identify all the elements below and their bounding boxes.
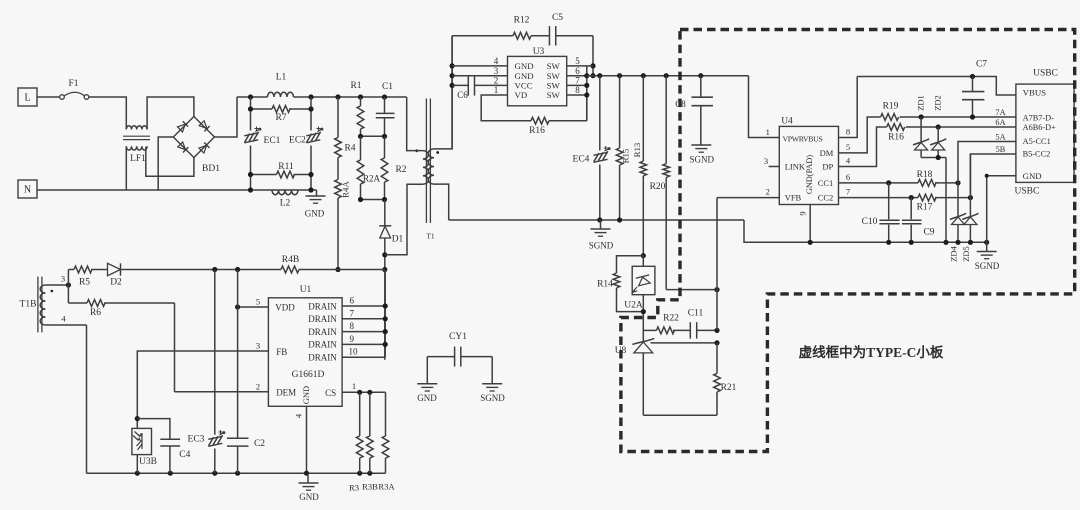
junction (135, 416, 140, 421)
svg-text:R2: R2 (395, 165, 406, 175)
capacitor CY1 (427, 356, 454, 358)
junction (714, 340, 719, 345)
svg-text:F1: F1 (68, 79, 78, 89)
junction (212, 267, 217, 272)
svg-text:3: 3 (494, 66, 499, 76)
wire rail jog to typec (744, 220, 987, 242)
svg-text:SW: SW (547, 81, 561, 91)
transformer T1B core (37, 277, 39, 333)
junction (714, 287, 719, 292)
svg-text:5A: 5A (995, 132, 1005, 141)
resistor R13 (642, 76, 644, 161)
svg-text:R4: R4 (344, 144, 355, 154)
svg-text:R12: R12 (514, 16, 530, 26)
capacitor C1 (384, 97, 386, 113)
junction (358, 134, 363, 139)
SW bus vertical (586, 66, 588, 121)
svg-text:GND: GND (515, 71, 534, 81)
svg-text:R4B: R4B (282, 255, 299, 265)
resistor R17 (918, 194, 936, 201)
wire U8 cathode right (651, 342, 718, 344)
inductor L1 (268, 92, 294, 97)
resistor R11 (277, 171, 295, 178)
wire CY1 left leg (426, 357, 428, 384)
svg-text:C9: C9 (923, 228, 934, 238)
ground SGND (CY1) (482, 383, 502, 385)
junction (641, 309, 646, 314)
resistor R22 (656, 327, 674, 334)
svg-text:U4: U4 (781, 117, 793, 127)
junction (248, 187, 253, 192)
svg-text:GND: GND (515, 61, 534, 71)
IC U4 box (779, 126, 838, 204)
junction (714, 328, 719, 333)
svg-text:R5: R5 (79, 278, 90, 288)
wire R20 to feedback node (666, 289, 717, 291)
wire secondary bottom (434, 184, 449, 220)
capacitor EC3 branch (214, 270, 216, 435)
U3 pin 1 wire via R16 (481, 95, 531, 121)
common-mode choke LF1 top winding (126, 126, 147, 130)
svg-text:R4A: R4A (341, 181, 351, 198)
wire rail down to U4 pin1 (749, 76, 780, 138)
wire secondary top (434, 36, 452, 149)
wire EC2 branch (310, 97, 312, 131)
junction (936, 155, 941, 160)
IC U1 box (268, 298, 342, 407)
optocoupler U2A box (632, 266, 655, 294)
svg-text:R3B: R3B (362, 482, 378, 492)
svg-text:C4: C4 (179, 450, 190, 460)
connector USBC box (1016, 84, 1074, 182)
svg-text:2: 2 (494, 76, 499, 86)
svg-text:9: 9 (798, 211, 808, 215)
wire R17 to 5B node (935, 197, 970, 199)
transformer T1 core (425, 99, 427, 223)
U3 pin 4 wire (452, 65, 507, 67)
U3 pin 3 wire (452, 75, 507, 77)
svg-text:SGND: SGND (690, 155, 715, 165)
wire primary bottom (385, 184, 423, 255)
BD1 diode bottom-left (178, 142, 189, 153)
junction (357, 390, 362, 395)
svg-text:USBC: USBC (1033, 69, 1058, 79)
U3 pin 2 wire (452, 84, 468, 86)
choke LF1 core (123, 135, 150, 137)
svg-text:D2: D2 (110, 278, 122, 288)
wire R4B to drain bus (299, 269, 385, 271)
svg-text:DM: DM (820, 148, 834, 158)
junction (248, 172, 253, 177)
svg-text:DRAIN: DRAIN (308, 353, 337, 363)
junction (909, 195, 914, 200)
wire VFB vertical (716, 198, 718, 331)
U1 CS wire (342, 391, 385, 393)
svg-text:L: L (24, 93, 30, 104)
svg-text:CC1: CC1 (818, 178, 834, 188)
wire fuse to choke (89, 97, 127, 129)
wire secondary ground rail (449, 219, 744, 221)
svg-text:B5-CC2: B5-CC2 (1023, 150, 1051, 159)
capacitor C11 (689, 322, 691, 338)
resistor R12 (513, 32, 531, 39)
svg-text:EC3: EC3 (188, 435, 205, 445)
U4 pin 8 wire to VBUS rail (839, 77, 858, 138)
wire R4 chain (337, 97, 339, 138)
junction (382, 252, 387, 257)
diode D2 (108, 263, 121, 275)
ground GND (U1) (307, 473, 309, 483)
wire N rail / negative rail (37, 189, 317, 191)
U3 SW pin wires (567, 65, 593, 67)
bridge rectifier BD1 diamond (173, 117, 214, 158)
svg-text:1: 1 (766, 127, 770, 137)
svg-text:R22: R22 (663, 314, 679, 324)
svg-text:SGND: SGND (589, 241, 614, 251)
U1 pin 4 wire (306, 406, 308, 473)
capacitor EC4 (599, 76, 601, 151)
junction (248, 106, 253, 111)
resistor R2A (360, 136, 362, 160)
capacitor C8 (692, 96, 713, 98)
svg-text:3: 3 (764, 156, 768, 166)
svg-text:A5-CC1: A5-CC1 (1023, 137, 1051, 146)
junction (597, 73, 602, 78)
svg-text:DRAIN: DRAIN (308, 314, 337, 324)
U4 pin 4 DP wire via R16 (839, 127, 887, 167)
junction (641, 253, 646, 258)
U3B phototransistor (133, 432, 142, 451)
svg-text:6: 6 (350, 296, 355, 306)
svg-text:CC2: CC2 (818, 193, 834, 203)
U4 pin 5 DM wire via R19 (839, 117, 881, 153)
wire 6A line (906, 126, 1016, 128)
U1 drain wires (342, 305, 385, 307)
svg-text:6: 6 (846, 172, 850, 182)
svg-text:VDD: VDD (275, 303, 295, 313)
svg-text:R11: R11 (278, 162, 294, 172)
wire USBC gnd (987, 176, 1016, 243)
svg-text:DP: DP (822, 162, 833, 172)
inductor L2 (272, 190, 298, 195)
resistor R16 (531, 117, 549, 124)
wire bridge left vertex down (158, 137, 173, 190)
svg-text:R21: R21 (721, 383, 737, 393)
wire zener common (921, 157, 946, 159)
svg-text:GND: GND (1023, 171, 1042, 181)
junction (985, 174, 989, 178)
svg-text:5: 5 (256, 297, 260, 307)
svg-text:L1: L1 (276, 73, 287, 83)
wire 5A line (958, 142, 1016, 183)
wire bridge bottom to choke (146, 147, 194, 176)
svg-text:D1: D1 (392, 235, 404, 245)
svg-text:R7: R7 (275, 113, 286, 123)
junction (235, 304, 240, 309)
capacitor C10 (888, 183, 890, 219)
wire top DC rail (237, 96, 268, 98)
wire to R5 (67, 270, 69, 286)
wire D2 to R4B (122, 269, 282, 271)
svg-text:7: 7 (846, 187, 850, 197)
U4 pin 6 CC1 wire via R18 (839, 182, 919, 184)
U4 pin 9 wire (809, 205, 811, 243)
T1B pin 3 wire (45, 284, 68, 286)
resistor R19 (881, 114, 899, 121)
wire main SW rail (587, 75, 749, 77)
resistor R18 (918, 180, 936, 187)
svg-text:DRAIN: DRAIN (308, 340, 337, 350)
svg-text:DEM: DEM (276, 388, 296, 398)
svg-text:ZD2: ZD2 (933, 95, 943, 111)
svg-text:FB: FB (276, 347, 287, 357)
svg-text:5: 5 (846, 142, 850, 152)
T1 primary winding (423, 151, 428, 185)
svg-text:9: 9 (350, 334, 355, 344)
wire bridge right vertex to top rail (215, 97, 238, 137)
junction (886, 180, 891, 185)
capacitor EC2 (306, 128, 323, 143)
T1 secondary phase dot (436, 151, 439, 154)
svg-text:SW: SW (547, 61, 561, 71)
resistor R5 (68, 269, 74, 271)
svg-text:EC2: EC2 (289, 136, 306, 146)
svg-text:U2A: U2A (624, 301, 643, 311)
svg-text:GND: GND (305, 209, 325, 219)
BD1 diode bottom-right (199, 142, 210, 153)
wire loop left down to T1 (451, 36, 453, 149)
wire choke bottom-left to N rail (125, 146, 127, 190)
junction (335, 94, 340, 99)
U4 pin 2 VFB wire (717, 197, 779, 199)
U1 pin 2 DEM wire stub (175, 391, 269, 393)
svg-text:R16: R16 (529, 126, 545, 136)
capacitor C6 (467, 75, 469, 95)
capacitor EC1 (244, 128, 261, 143)
wire CY1 right leg (491, 357, 493, 384)
fuse F1 (60, 95, 65, 100)
svg-text:GND: GND (417, 393, 437, 403)
wire R22 to C11 (673, 329, 690, 331)
U1 pin 5 VDD wire (238, 306, 269, 308)
T1B phase dot (51, 290, 54, 293)
svg-text:SW: SW (547, 90, 561, 100)
resistor R3A (385, 392, 387, 436)
ground SGND (typec) (986, 242, 988, 251)
resistor R1 (360, 97, 362, 106)
wire primary top (407, 97, 423, 151)
wire D1 down to drain bus (384, 238, 386, 360)
svg-text:SGND: SGND (480, 393, 505, 403)
svg-text:C1: C1 (382, 82, 393, 92)
svg-text:U1: U1 (300, 285, 312, 295)
svg-text:4: 4 (494, 56, 499, 66)
svg-text:R19: R19 (883, 102, 899, 112)
wire EC1 branch (250, 97, 252, 131)
junction (135, 471, 140, 476)
wire mid node (361, 135, 385, 137)
svg-text:R15: R15 (621, 148, 631, 163)
svg-text:4: 4 (61, 314, 66, 324)
resistor R3 (359, 392, 361, 436)
svg-text:C5: C5 (552, 13, 563, 23)
U1 pin 3 FB wire (137, 351, 268, 419)
svg-text:LF1: LF1 (130, 154, 146, 164)
svg-text:R17: R17 (917, 203, 933, 213)
wire R18 to 5A node (935, 182, 958, 184)
junction (66, 282, 71, 287)
T1B pin 4 wire (45, 324, 86, 326)
capacitor C7 (972, 77, 974, 92)
svg-text:2: 2 (256, 382, 260, 392)
junction (358, 94, 363, 99)
ground GND (filter) (316, 190, 318, 196)
wire R6 down to DEM (174, 303, 176, 392)
capacitor C9 (910, 198, 912, 220)
svg-text:USBC: USBC (1015, 187, 1040, 197)
junction (968, 195, 973, 200)
wire U2A vertical (642, 256, 644, 267)
common-mode choke LF1 bottom winding (126, 146, 147, 150)
svg-text:R13: R13 (632, 142, 642, 157)
ground SGND (secondary) (600, 220, 602, 229)
resistor R15 (619, 76, 621, 148)
junction (308, 94, 313, 99)
svg-text:10: 10 (349, 347, 359, 357)
zener diode ZD4 (957, 183, 959, 217)
svg-text:R3A: R3A (378, 482, 395, 492)
capacitor C5 (548, 26, 550, 45)
wire L to fuse (37, 96, 60, 98)
resistor R2 (384, 136, 386, 158)
U4 pin 7 CC2 wire via R17 (839, 197, 919, 199)
junction (248, 94, 253, 99)
wire R12/C5 top loop (452, 35, 513, 37)
svg-text:虚线框中为TYPE-C小板: 虚线框中为TYPE-C小板 (799, 344, 944, 360)
svg-text:GND(PAD): GND(PAD) (805, 155, 814, 195)
wire U3B top (136, 419, 138, 429)
connector N (mains neutral input) (18, 180, 37, 198)
BD1 diode top-right (199, 121, 210, 132)
svg-text:1: 1 (494, 85, 499, 95)
resistor R4 (335, 138, 342, 158)
wire R11 link (251, 174, 277, 176)
svg-text:R20: R20 (650, 182, 666, 192)
svg-text:VFB: VFB (785, 193, 802, 203)
junction (970, 74, 975, 79)
svg-text:VBUS: VBUS (1023, 88, 1047, 98)
svg-text:6A: 6A (995, 118, 1005, 127)
connector L (mains live input) (18, 88, 37, 106)
wire C11 to vfb line (697, 329, 717, 331)
svg-text:ZD4: ZD4 (949, 245, 959, 261)
BD1 diode top-left (177, 121, 188, 132)
T1 primary phase dot (415, 149, 418, 152)
resistor R4A (335, 180, 342, 199)
svg-text:R1: R1 (350, 81, 361, 91)
wire R7 link (251, 108, 273, 110)
svg-text:4: 4 (846, 156, 851, 166)
capacitor C4 (160, 438, 180, 440)
junction (919, 114, 924, 119)
svg-text:G1661D: G1661D (292, 370, 325, 380)
IC U3 box (508, 56, 567, 105)
ground GND (CY1) (417, 383, 437, 385)
svg-text:R18: R18 (917, 170, 933, 180)
svg-text:ZD5: ZD5 (961, 246, 971, 262)
svg-text:N: N (24, 185, 31, 196)
svg-text:U3B: U3B (139, 457, 157, 467)
svg-text:CS: CS (325, 388, 336, 398)
svg-text:R6: R6 (90, 308, 101, 318)
junction (584, 73, 589, 78)
svg-text:C7: C7 (976, 60, 987, 70)
svg-text:VD: VD (515, 90, 528, 100)
svg-text:T1: T1 (426, 232, 435, 241)
wire bottom link (643, 414, 717, 416)
diode D1 (379, 225, 391, 227)
svg-text:L2: L2 (280, 199, 291, 209)
svg-text:GND: GND (301, 386, 311, 404)
svg-text:SW: SW (547, 71, 561, 81)
resistor R3B (369, 392, 371, 436)
svg-text:8: 8 (575, 85, 580, 95)
drain bus vertical (384, 270, 386, 358)
resistor R6 (87, 300, 105, 307)
bottom ground rail (87, 472, 386, 474)
ground SGND (C8) (691, 144, 711, 146)
T1 secondary winding (428, 149, 434, 184)
dashed TYPE-C board outline (621, 30, 1075, 452)
wire C8 to sgnd (700, 106, 702, 145)
svg-text:ZD1: ZD1 (916, 95, 926, 111)
zener diode ZD5 (969, 154, 971, 217)
U4 pin 3 stub (769, 166, 780, 168)
svg-text:7: 7 (350, 308, 355, 318)
junction (808, 240, 813, 245)
svg-text:VCC: VCC (515, 81, 533, 91)
junction (450, 63, 455, 68)
wire bottom node (361, 199, 385, 201)
svg-text:A6B6-D+: A6B6-D+ (1023, 123, 1057, 132)
svg-text:7A: 7A (995, 108, 1005, 117)
resistor R21 (716, 343, 718, 374)
svg-text:8: 8 (350, 321, 355, 331)
svg-text:6: 6 (575, 66, 580, 76)
svg-text:C6: C6 (457, 90, 468, 100)
svg-text:3: 3 (61, 274, 65, 284)
zener diode U8 (634, 342, 653, 353)
svg-text:EC1: EC1 (264, 136, 281, 146)
svg-text:5B: 5B (996, 145, 1006, 154)
svg-text:8: 8 (846, 127, 850, 137)
svg-text:4: 4 (294, 413, 304, 418)
wire R6 branch (67, 285, 69, 303)
svg-text:1: 1 (352, 381, 356, 391)
zener diode ZD2 (937, 127, 939, 143)
svg-text:2: 2 (766, 187, 770, 197)
svg-text:R2A: R2A (363, 174, 381, 184)
junction (936, 124, 941, 129)
junction (955, 180, 960, 185)
optocoupler U3B box (132, 428, 152, 454)
svg-text:R16: R16 (888, 133, 904, 143)
wire C4 branch (137, 419, 170, 439)
resistor R14 (613, 273, 620, 288)
T1B winding (40, 285, 45, 325)
svg-text:SGND: SGND (975, 261, 1000, 271)
wire choke top-right up to bridge (147, 97, 194, 130)
